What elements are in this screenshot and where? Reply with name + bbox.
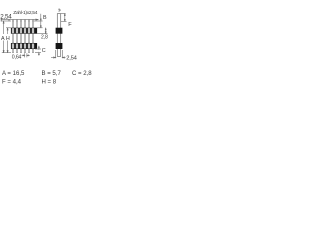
svg-text:H: H [6,36,10,42]
svg-text:B: B [43,15,47,21]
right view body block lower [56,43,63,49]
left view pin stubs bottom [12,49,33,53]
lower insulator band [11,43,37,49]
svg-text:A = 16,5: A = 16,5 [2,71,25,77]
dimension C (stub) [35,46,41,56]
upper insulator band [11,28,37,34]
svg-text:2,54: 2,54 [66,55,77,61]
svg-text:F: F [68,22,72,28]
tick marks at pin centers [13,19,34,21]
background [0,0,95,95]
left view pins middle [12,34,33,43]
top dimension line [1,19,38,22]
dimension 2,8 (body height) [37,28,47,34]
svg-text:0,64: 0,64 [12,54,22,60]
svg-text:C = 2,8: C = 2,8 [72,71,92,77]
squiggle mark top of pin [58,9,60,11]
svg-text:C: C [42,48,46,54]
bottom dimension 2,54 (body depth) [51,50,66,58]
svg-text:Zahl-1)x2,54: Zahl-1)x2,54 [13,10,37,16]
dimension B line [34,14,43,28]
dimension A line [2,21,11,53]
svg-text:B = 5,7: B = 5,7 [42,71,62,77]
right view pin outline [57,14,60,57]
svg-text:A: A [1,36,5,42]
dimension F [61,14,67,22]
svg-text:F = 4,4: F = 4,4 [2,80,22,86]
svg-text:2,8: 2,8 [41,35,48,41]
left view pins above body [12,21,33,28]
svg-text:2,54: 2,54 [0,13,12,20]
svg-text:H = 8: H = 8 [42,80,57,86]
right view body block upper [56,28,63,34]
dimension H line [6,28,11,53]
